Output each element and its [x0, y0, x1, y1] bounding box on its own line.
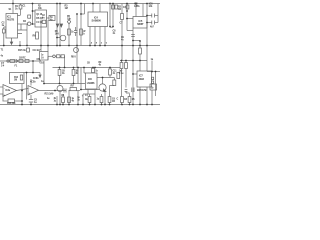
- wire IC2 bottom pin x100: [99, 27, 101, 46]
- resistor R19b right: [125, 63, 128, 69]
- wire vertical x110 below rail67: [109, 68, 111, 70]
- svg-text:1b: 1b: [71, 32, 74, 34]
- wire rail segment y77 right of IC6: [97, 77, 114, 79]
- pin stub X1 right to S1: [47, 17, 50, 19]
- transistor Q6 small top: [28, 22, 31, 25]
- resistor R17 bottom: [121, 97, 124, 103]
- wire circle to box: [55, 55, 56, 57]
- svg-text:1B RC: 1B RC: [19, 57, 26, 60]
- wire rail segment left-center y83: [44, 83, 85, 85]
- wire vertical x44 left low: [43, 61, 45, 84]
- wire vertical x101 bottom resistor: [101, 94, 103, 97]
- svg-text:2-4: 2-4: [1, 65, 5, 68]
- svg-text:1k4: 1k4: [55, 32, 59, 35]
- wire rail segment right y60: [120, 60, 147, 62]
- svg-text:1e: 1e: [47, 97, 50, 100]
- wire vertical x93 resistor lead: [92, 67, 94, 70]
- connector circle J2: [53, 55, 56, 58]
- svg-text:C7: C7: [120, 22, 124, 25]
- wire vertical x48 lower: [47, 46, 49, 52]
- wire vertical x26.5 U2 inv input: [26, 73, 28, 100]
- wire input chain y61 left: [0, 60, 41, 62]
- svg-text:1B: 1B: [87, 63, 90, 65]
- pin mark IC7 right a: [152, 77, 154, 79]
- wire vertical x31 cap C5: [30, 95, 32, 100]
- svg-text:1a: 1a: [151, 58, 154, 61]
- resistor R21 series: [70, 88, 77, 91]
- wire chain end down: [64, 56, 66, 67]
- wire vertical x78 bottom: [77, 91, 79, 105]
- wire IC2 bottom pin x95: [94, 27, 96, 46]
- wire vertical x152 lower: [151, 61, 153, 72]
- arrow down x40: [39, 73, 41, 76]
- wire vertical x41 lower: [40, 46, 42, 52]
- wire vertical x126 r: [125, 61, 127, 63]
- svg-text:C8: C8: [124, 98, 128, 101]
- connector block left-bottom: [10, 73, 25, 84]
- wire cap right top leads: [147, 15, 152, 17]
- wire vertical x20 with resistor: [20, 4, 22, 6]
- wire top supply rail: [0, 3, 160, 5]
- resistor R1: [19, 5, 22, 9]
- capacitor C1: [74, 30, 78, 32]
- pin stub IC5 left y18.5: [127, 18, 133, 20]
- wire horizontal y94 bottom bus: [83, 93, 95, 95]
- pin stub X1 left pin a: [33, 10, 36, 12]
- resistor R5: [121, 14, 124, 20]
- wire transistor Q4 emitter: [104, 91, 106, 105]
- svg-text:C1 Q7: C1 Q7: [36, 22, 43, 24]
- wire vertical x31 U2 top: [30, 79, 32, 86]
- wire rail segment center y67: [53, 67, 121, 69]
- IC U5 melody box: [133, 17, 147, 29]
- svg-text:C: C: [117, 98, 119, 101]
- resistor R8: [139, 48, 142, 54]
- IC X1 oscillator box: [35, 10, 47, 27]
- junction dots top rail: [12, 3, 14, 5]
- svg-text:4093: 4093: [139, 77, 145, 81]
- pin stub IC1 pin 14: [18, 23, 28, 25]
- svg-text:1M: 1M: [65, 7, 68, 10]
- svg-text:+: +: [29, 92, 31, 95]
- wire vertical x133 below IC5: [132, 28, 134, 46]
- diode D1 input chain: [16, 60, 19, 63]
- svg-text:R4: R4: [23, 20, 27, 23]
- wire vertical x81 lower: [80, 68, 82, 90]
- op-amp U2: [28, 86, 39, 96]
- svg-text:LM386: LM386: [87, 81, 95, 85]
- resistor R25 bottom mid: [62, 97, 65, 103]
- resistor R11: [92, 68, 95, 72]
- resistor R26 bottom mid: [68, 97, 71, 103]
- transistor Q4 power: [99, 84, 106, 91]
- wire vertical x13 IC1 top pin: [12, 0, 14, 14]
- svg-text:R15 1k: R15 1k: [18, 48, 26, 52]
- svg-text:1b: 1b: [77, 100, 80, 102]
- wire U1 feedback bottom: [3, 100, 9, 102]
- wire vertical x129 lowest: [129, 94, 131, 97]
- svg-text:4C5b: 4C5b: [30, 80, 36, 83]
- svg-text:4x: 4x: [1, 55, 4, 58]
- svg-text:R14 22k: R14 22k: [7, 102, 16, 105]
- transistor Q5 small: [74, 48, 79, 53]
- wire IC2 bottom pin x105: [104, 27, 106, 46]
- svg-text:1e: 1e: [41, 55, 44, 57]
- op-amp U1: [3, 85, 17, 97]
- capacitor C6: [63, 89, 65, 93]
- svg-text:14: 14: [85, 94, 88, 97]
- wire IC2 top pin x93: [92, 4, 94, 13]
- box cluster f top (small comp left of X1): [28, 15, 31, 18]
- diamond node x69: [67, 20, 70, 24]
- IC U3 counter box: [6, 14, 18, 39]
- wire horizontal x133-140 y40.5: [133, 40, 140, 42]
- wire rail segment far-right y71: [147, 71, 160, 73]
- wire U1 inv input down leg: [2, 94, 4, 101]
- capacitor C12 mid column: [125, 89, 128, 91]
- wire vertical x140 mid2: [139, 46, 141, 49]
- wire vertical x110: [109, 4, 111, 28]
- resistor R29 on x81: [80, 29, 83, 35]
- box cluster e top: [49, 16, 55, 21]
- junction dots bottom rail: [21, 104, 23, 106]
- wire Q3 emitter to ground: [59, 92, 61, 105]
- wire bottom ground rail: [0, 104, 160, 106]
- resistor R24 right of rail77: [113, 80, 116, 86]
- resistor R7: [68, 29, 71, 35]
- wire vertical x140 below IC7: [139, 87, 141, 105]
- wire y72.5 block to arrow: [24, 72, 40, 74]
- wire IC2 bottom pin x90: [89, 27, 91, 46]
- capacitor C2 left of IC1: [3, 29, 6, 33]
- capacitor C8 right top a: [151, 14, 153, 18]
- resistor R6: [36, 32, 39, 39]
- svg-text:T1: T1: [1, 49, 4, 52]
- svg-text:4: 4: [91, 42, 93, 45]
- wire opamp U2 output to Q3: [39, 90, 67, 92]
- wire vertical x89 bottom resistor: [89, 94, 91, 97]
- svg-text:1k: 1k: [95, 71, 98, 73]
- wire mid supply rail: [0, 45, 160, 47]
- box input filter b: [19, 60, 23, 63]
- pin stub IC1 pin 8: [18, 29, 28, 31]
- svg-text:1u: 1u: [97, 98, 100, 101]
- wire vertical x32.5 X1 pin bus: [32, 4, 34, 25]
- svg-text:C 1u: C 1u: [119, 73, 124, 75]
- resistor R14 bottom: [88, 97, 91, 103]
- svg-text:1b: 1b: [151, 87, 154, 89]
- wire vertical x147 lower: [146, 46, 148, 72]
- wire vertical x60: [59, 4, 61, 46]
- wire vertical x147 bottom: [146, 87, 148, 105]
- svg-text:R9: R9: [71, 85, 75, 88]
- wire Q4 base feed: [80, 89, 99, 91]
- pin stub IC1 pin 16: [18, 15, 21, 17]
- resistor R13 feedback: [8, 99, 15, 103]
- wire vertical x84 IC6 top: [83, 68, 85, 74]
- svg-text:C1: C1: [23, 5, 27, 8]
- resistor R18 bottom: [128, 97, 131, 103]
- wire vertical x57: [56, 4, 58, 46]
- wire vertical x33 input to block: [32, 61, 34, 73]
- svg-text:4b: 4b: [72, 100, 75, 103]
- svg-text:8: 8: [96, 43, 98, 45]
- svg-text:b: b: [83, 33, 85, 35]
- svg-text:R12: R12: [14, 77, 19, 79]
- wire vertical x69 bottom: [68, 91, 70, 105]
- wire vertical x122 lower: [121, 46, 123, 61]
- transistor Q2 upper: [60, 35, 66, 41]
- resistor R3: [115, 5, 118, 9]
- svg-text:IC7: IC7: [139, 74, 143, 78]
- resistor R16 bottom: [108, 97, 111, 103]
- wire vertical x155.5 right: [155, 72, 157, 97]
- arrow LED x60: [60, 24, 63, 27]
- svg-text:4b7: 4b7: [150, 26, 154, 29]
- wire vertical x69: [68, 24, 70, 46]
- wire vertical x77: [76, 14, 78, 68]
- wire vertical x158: [157, 4, 159, 16]
- svg-text:1B: 1B: [132, 98, 135, 101]
- svg-text:10k: 10k: [67, 18, 71, 21]
- svg-text:IC6: IC6: [88, 77, 92, 81]
- resistor R27 chain a: [57, 55, 61, 58]
- svg-text:R4: R4: [118, 8, 122, 11]
- wire vertical x83 bottom cap: [82, 94, 84, 105]
- svg-text:12Bb: 12Bb: [134, 5, 140, 8]
- box right small x150: [150, 84, 157, 90]
- wire vertical x127: [126, 4, 128, 31]
- wire vertical x122 lowest: [121, 103, 123, 105]
- wire link x81-x84.5 y14: [81, 13, 85, 15]
- wire vertical x73 resistor lower: [73, 68, 75, 70]
- wire vertical x147 top: [146, 4, 148, 46]
- svg-text:IC5: IC5: [139, 19, 143, 23]
- svg-text:U10: U10: [40, 61, 45, 64]
- wire vertical x109 bottom resistor: [109, 86, 111, 97]
- wire vertical x57 bottom: [56, 96, 58, 105]
- svg-text:F1: F1: [15, 65, 18, 68]
- svg-text:1A: 1A: [41, 57, 44, 60]
- svg-text:R8 U: R8 U: [71, 57, 76, 59]
- wire vertical x95 bottom: [94, 90, 96, 105]
- svg-text:2: 2: [101, 43, 103, 45]
- wire vertical x140 to IC7: [139, 61, 141, 72]
- wire vertical x48: [47, 20, 49, 46]
- wire link x110-113: [110, 26, 113, 28]
- wire IC6 bottom stub: [87, 89, 89, 94]
- wire opamp U1 output: [17, 89, 29, 91]
- wire IC2 top pin x100: [99, 4, 101, 13]
- wire vertical x20 mid: [19, 41, 21, 46]
- svg-text:BC547B: BC547B: [137, 88, 147, 92]
- wire vertical x81: [80, 4, 82, 46]
- svg-text:1B: 1B: [112, 100, 115, 103]
- wire transistor Q4 collector: [102, 78, 104, 85]
- pin mark IC7 right b: [152, 81, 154, 83]
- svg-text:1u: 1u: [54, 101, 57, 103]
- pin stub IC7 left: [133, 73, 137, 75]
- svg-text:12b: 12b: [149, 6, 153, 8]
- resistor R12: [109, 69, 112, 75]
- wire chain box to circle: [48, 55, 53, 57]
- relay box K1: [40, 52, 49, 61]
- resistor R23 under mid rail: [27, 48, 30, 52]
- box small under C2 label: [42, 20, 46, 23]
- wire vertical x84.5 short: [84, 4, 86, 15]
- resistor block inside connector: [20, 75, 22, 80]
- connector circle input: [7, 60, 9, 62]
- svg-text:4b: 4b: [85, 98, 88, 101]
- resistor R2: [112, 5, 115, 9]
- wire vertical x121.5 r: [121, 61, 123, 63]
- Q4 emitter arrow: [104, 89, 107, 92]
- wire vertical x140: [139, 41, 141, 46]
- svg-text:R21 3A9: R21 3A9: [45, 93, 55, 96]
- wire IC5 top pin x136: [135, 4, 137, 17]
- wire IC5 top pin x143: [142, 4, 144, 17]
- box input filter a: [10, 60, 15, 63]
- wire vertical x113: [112, 4, 114, 28]
- wire box to box: [60, 55, 61, 57]
- capacitor C9 right top b: [151, 21, 153, 25]
- IC U7 right box: [137, 71, 152, 87]
- svg-text:S1: S1: [9, 8, 12, 11]
- wire vertical x22: [21, 84, 23, 105]
- wire U1 inputs: [0, 86, 3, 88]
- wire vertical x133 lower: [132, 46, 134, 105]
- wire vertical x48 to chain: [47, 56, 49, 60]
- resistor R4: [126, 5, 129, 9]
- box input filter c: [25, 60, 29, 63]
- svg-text:6: 6: [106, 43, 108, 45]
- wire x127 to IC5 left: [127, 30, 133, 32]
- IC U4 main box: [88, 12, 108, 27]
- svg-text:IC3a: IC3a: [6, 90, 11, 92]
- arrow LED x57: [56, 24, 59, 27]
- wire vertical x158 caps link: [157, 16, 159, 23]
- capacitor C2 below IC5: [131, 34, 135, 36]
- capacitor C5: [29, 99, 33, 101]
- resistor R15 bottom: [100, 97, 103, 103]
- wire Q2 base: [57, 37, 60, 39]
- pin stub X1 left pin b: [33, 23, 36, 25]
- wire vertical x41: [40, 20, 42, 46]
- resistor R28 chain b: [61, 55, 65, 58]
- pin stub IC1 pin 13: [18, 33, 23, 35]
- junction dots mid rail: [3, 45, 5, 47]
- wire vertical x78: [77, 68, 79, 84]
- svg-text:M66T: M66T: [137, 22, 144, 26]
- resistor R20 left column: [117, 73, 120, 79]
- svg-text:1M: 1M: [14, 80, 17, 82]
- junction dots misc: [59, 67, 61, 69]
- svg-text:C9 4n7: C9 4n7: [33, 48, 42, 52]
- resistor R19 right: [120, 63, 123, 69]
- IC U6 amplifier box: [86, 73, 98, 89]
- wire vertical x122 top: [121, 4, 123, 14]
- resistor R9 lower center: [58, 70, 61, 76]
- wire vertical x59 resistor lower: [59, 68, 61, 70]
- pin stub IC1 pin 4 bottom: [11, 38, 13, 42]
- transistor Q3: [57, 86, 63, 92]
- wire vertical x152 bottom: [151, 90, 153, 105]
- wire stub x21: [20, 24, 22, 30]
- svg-text:SAB600: SAB600: [92, 19, 102, 23]
- capacitor C7 right: [131, 88, 133, 93]
- svg-text:-: -: [29, 88, 30, 91]
- svg-text:4017B: 4017B: [7, 18, 14, 22]
- wire vertical x27: [26, 24, 28, 46]
- resistor R10: [72, 70, 75, 76]
